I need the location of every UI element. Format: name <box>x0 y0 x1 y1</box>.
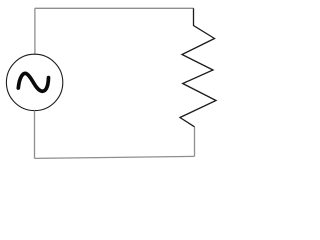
sine symbol <box>18 73 48 91</box>
wire left vertical bottom <box>34 110 36 158</box>
top wire <box>35 7 194 9</box>
wire left vertical top <box>34 8 36 55</box>
bottom wire <box>35 156 195 158</box>
wire right vertical bottom lead <box>194 127 196 157</box>
AC source V1 <box>6 54 62 110</box>
resistor R1 <box>180 8 216 127</box>
